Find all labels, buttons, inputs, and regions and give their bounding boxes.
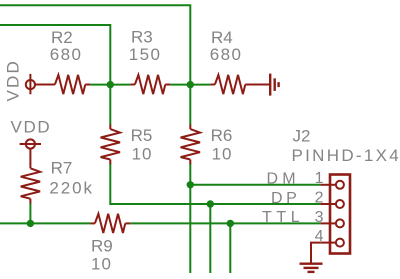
connector J2 body xyxy=(330,175,350,254)
wire junction A to R3 xyxy=(110,84,130,86)
svg-text:TTL: TTL xyxy=(262,209,304,226)
wire R2 to junction A xyxy=(90,84,110,86)
ground symbol right of R4 xyxy=(270,74,278,96)
node DM junction xyxy=(187,181,194,188)
svg-text:680: 680 xyxy=(50,45,83,64)
connector J2 pin 4 stub xyxy=(320,242,336,244)
connector J2 pin 2 circle xyxy=(336,200,344,208)
wire TTL net from R9 to pin 3 xyxy=(130,222,320,224)
wire TTL branch down xyxy=(229,223,231,273)
node junction A xyxy=(107,81,114,88)
svg-text:220k: 220k xyxy=(49,178,93,197)
wire second rail net to junction A xyxy=(0,25,110,85)
svg-text:1: 1 xyxy=(315,170,324,187)
svg-text:10: 10 xyxy=(212,145,233,164)
svg-text:10: 10 xyxy=(132,145,153,164)
svg-text:DM: DM xyxy=(267,171,300,188)
supply VDD P2 symbol xyxy=(20,139,41,163)
wire top rail net to junction B xyxy=(0,5,190,84)
svg-text:R5: R5 xyxy=(131,126,153,145)
wire R6 bottom to DM node xyxy=(189,164,191,185)
node junction B xyxy=(187,81,194,88)
wire DM net horizontal to pin 1 xyxy=(190,184,320,186)
ground symbol below pin 4 xyxy=(300,264,323,272)
wire pin 4 to ground xyxy=(311,243,320,263)
svg-text:3: 3 xyxy=(315,209,324,226)
svg-text:R7: R7 xyxy=(51,159,73,178)
resistor R9 xyxy=(90,214,130,233)
wire DP net from R5 bottom to pin 2 xyxy=(110,164,320,205)
svg-text:VDD: VDD xyxy=(11,118,52,137)
wire TTL net left segment xyxy=(0,222,90,224)
resistor R7 xyxy=(21,163,40,203)
wire junction B down to R6 xyxy=(189,85,191,125)
svg-text:150: 150 xyxy=(129,45,162,64)
svg-text:J2: J2 xyxy=(293,126,311,145)
svg-text:R9: R9 xyxy=(91,237,113,256)
connector J2 pin 2 stub xyxy=(320,203,336,205)
connector J2 pin 1 stub xyxy=(320,184,336,186)
supply VDD P1 symbol xyxy=(26,74,35,94)
wire R7 bottom to TTL node xyxy=(29,203,31,223)
svg-text:R3: R3 xyxy=(131,28,153,47)
resistor R6 xyxy=(181,125,200,165)
svg-text:VDD: VDD xyxy=(4,59,23,102)
wire DP branch down xyxy=(209,204,211,273)
svg-text:680: 680 xyxy=(210,45,243,64)
svg-text:DP: DP xyxy=(271,190,300,207)
connector J2 pin 1 circle xyxy=(336,181,344,189)
node DP junction xyxy=(207,200,214,207)
wire R3 to junction B xyxy=(170,84,190,86)
svg-text:2: 2 xyxy=(315,189,324,206)
connector J2 pin 3 stub xyxy=(320,222,336,224)
resistor R5 xyxy=(101,125,120,165)
resistor R2 xyxy=(35,75,90,94)
resistor R4 xyxy=(210,75,269,94)
svg-text:R6: R6 xyxy=(211,126,233,145)
node TTL junction xyxy=(227,220,234,227)
connector J2 pin 3 circle xyxy=(336,219,344,227)
connector J2 pin 4 circle xyxy=(336,239,344,247)
wire DM branch down xyxy=(189,185,191,273)
resistor R3 xyxy=(130,75,170,94)
svg-text:PINHD-1X4: PINHD-1X4 xyxy=(292,146,400,165)
wire junction A down to R5 xyxy=(109,85,111,125)
node R7/TTL junction xyxy=(27,220,34,227)
svg-text:10: 10 xyxy=(91,255,112,274)
wire junction B to R4 xyxy=(190,84,210,86)
